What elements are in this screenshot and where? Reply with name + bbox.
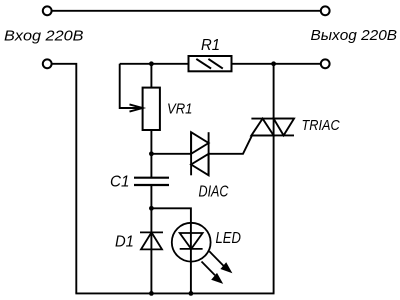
wire LED through to bottom rail xyxy=(190,223,192,294)
LED body xyxy=(172,223,211,262)
capacitor C1 xyxy=(134,178,169,185)
wire top rail xyxy=(52,10,321,12)
terminal input top xyxy=(43,6,52,15)
svg-text:C1: C1 xyxy=(110,173,130,190)
diode D1 xyxy=(140,232,163,249)
wire C1 to D1 xyxy=(150,185,152,232)
wire node B to bottom rail through TRIAC xyxy=(273,64,275,294)
wire input to left rail xyxy=(51,64,76,294)
node D junction xyxy=(149,206,154,211)
node C junction xyxy=(149,151,154,156)
svg-text:Bыxog 220B: Bыxog 220B xyxy=(311,27,398,44)
wire D1 through to bottom rail xyxy=(150,232,152,293)
wire node B to output terminal xyxy=(274,63,321,65)
wire wiper feedback loop xyxy=(120,64,139,108)
VR1 wiper arrow xyxy=(130,104,143,111)
wire VR1 to C1 xyxy=(150,130,152,178)
terminal output top xyxy=(321,6,330,15)
svg-text:TRIAC: TRIAC xyxy=(302,118,341,134)
wire bottom rail xyxy=(75,292,274,294)
triac TRIAC xyxy=(251,119,294,136)
LED emission arrow 2 xyxy=(202,262,224,284)
LED emission arrow 1 xyxy=(209,251,232,273)
svg-text:D1: D1 xyxy=(115,234,134,251)
wire DIAC to TRIAC gate xyxy=(209,135,252,153)
svg-text:VR1: VR1 xyxy=(167,102,192,118)
node B junction xyxy=(271,61,276,66)
wire node C to DIAC xyxy=(151,153,191,155)
node E junction bottom middle xyxy=(149,291,154,296)
node A junction xyxy=(149,61,154,66)
terminal input bottom xyxy=(43,59,52,68)
terminal output bottom xyxy=(321,59,330,68)
wire node D to LED xyxy=(151,208,191,222)
resistor R1 xyxy=(189,56,232,71)
wire node A to R1 xyxy=(120,63,189,65)
wire R1 to node B xyxy=(232,63,274,65)
svg-text:R1: R1 xyxy=(201,37,220,54)
svg-text:Bxog 220B: Bxog 220B xyxy=(4,28,84,45)
wire node A to VR1 xyxy=(150,64,152,88)
svg-text:DIAC: DIAC xyxy=(199,184,230,201)
svg-text:LED: LED xyxy=(216,230,241,247)
node F junction bottom LED xyxy=(189,291,194,296)
diac DIAC xyxy=(191,132,209,175)
potentiometer VR1 xyxy=(143,88,160,130)
